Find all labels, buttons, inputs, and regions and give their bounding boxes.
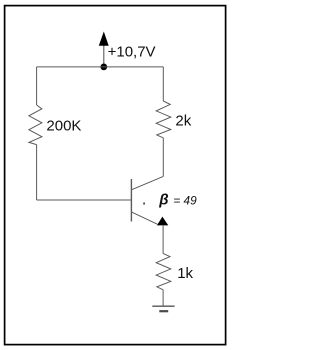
svg-text:2k: 2k: [175, 113, 191, 130]
resistor 1k: [156, 254, 171, 290]
ground symbol: [152, 306, 174, 311]
border frame (decorative): [5, 6, 226, 345]
resistor 2k: [156, 101, 171, 138]
svg-text:= 49: = 49: [173, 193, 197, 207]
transistor Q1 emitter diagonal: [131, 212, 157, 224]
svg-text:1k: 1k: [177, 265, 193, 282]
wire: emitter vertical: [162, 225, 164, 254]
wire: top rail: [37, 66, 164, 68]
wire: ground lead: [162, 290, 164, 306]
power supply arrow +10,7V: [99, 32, 109, 67]
transistor Q1 base bar: [130, 179, 132, 222]
wire: left vertical upper: [36, 67, 38, 105]
node: supply junction dot: [100, 64, 107, 71]
stray mark near base: [143, 202, 145, 204]
svg-text:β: β: [158, 192, 168, 209]
svg-text:200K: 200K: [46, 118, 81, 135]
wire: collector vertical: [162, 138, 164, 177]
wire: left vertical lower: [36, 145, 38, 200]
wire: collector diagonal: [131, 176, 163, 189]
svg-text:+10,7V: +10,7V: [108, 44, 156, 61]
resistor 200K: [29, 105, 42, 145]
transistor Q1 emitter arrowhead: [157, 217, 168, 226]
wire: right vertical upper: [162, 67, 164, 101]
wire: base wire: [37, 199, 131, 201]
